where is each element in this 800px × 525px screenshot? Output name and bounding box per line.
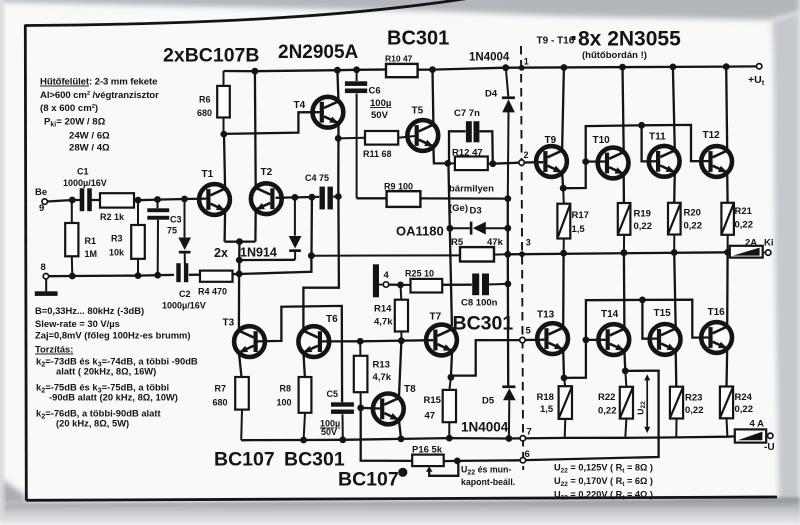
svg-text:C7 7n: C7 7n: [454, 108, 480, 119]
wire T11 base drop: [642, 125, 656, 161]
resistor R23: [670, 387, 704, 438]
resistor R2: [100, 193, 134, 222]
svg-text:R12 47: R12 47: [452, 148, 483, 159]
node input/R1/C1: [69, 197, 76, 204]
transistor T16: [701, 307, 732, 353]
terminal pin 4: [383, 270, 389, 287]
node T4 collector top: [334, 67, 341, 74]
svg-text:T16: T16: [708, 307, 726, 318]
svg-text:6: 6: [525, 449, 530, 460]
wire T11 emitter: [673, 172, 676, 203]
svg-text:28W / 4Ω: 28W / 4Ω: [69, 143, 110, 154]
transistor T11: [649, 132, 680, 177]
node T2 base/D2: [292, 194, 299, 201]
svg-text:R11 68: R11 68: [363, 149, 392, 159]
svg-text:R18: R18: [537, 392, 554, 403]
terminal Ki: [766, 250, 771, 255]
svg-text:D5: D5: [482, 396, 495, 407]
node T10 collector rail: [619, 64, 626, 71]
wire node2 link: [493, 163, 519, 164]
wire to C4: [295, 196, 319, 199]
svg-text:R8: R8: [280, 384, 292, 394]
svg-text:R3: R3: [111, 234, 123, 244]
svg-text:-U: -U: [764, 442, 775, 453]
svg-text:T7: T7: [430, 312, 442, 323]
wire R10-T5 collector: [418, 68, 433, 70]
svg-text:R6: R6: [199, 95, 211, 105]
node C5 bottom: [339, 436, 346, 443]
wire link to D2: [239, 259, 295, 262]
wire T7 emitter: [451, 351, 452, 377]
svg-text:T2: T2: [261, 167, 273, 178]
wire T4 emitter: [337, 123, 340, 196]
wire bias chain mid: [507, 199, 509, 255]
svg-text:1N4004: 1N4004: [461, 420, 509, 435]
transistor T10: [593, 135, 629, 178]
resistor R4: [198, 271, 233, 297]
wire base line to T7: [360, 340, 433, 341]
svg-text:R20: R20: [684, 208, 701, 219]
node R5 right / output rail: [504, 251, 511, 258]
wire T14 emitter: [623, 351, 626, 371]
node T11 collector rail: [670, 64, 677, 71]
resistor R21: [721, 203, 753, 253]
wire R9-D4 node: [420, 197, 507, 200]
transistor T7: [426, 312, 457, 356]
svg-text:2N2905A: 2N2905A: [278, 42, 359, 63]
wire pin5-T13 base: [525, 339, 544, 342]
svg-text:1N4004: 1N4004: [469, 52, 510, 64]
svg-text:T3: T3: [223, 318, 235, 329]
resistor R11: [338, 131, 414, 159]
node R2/R3: [135, 197, 142, 204]
resistor R24: [720, 387, 753, 437]
wire T9 collector: [562, 68, 564, 151]
node T13 emitter: [561, 375, 568, 382]
svg-text:3: 3: [526, 238, 531, 248]
transistor T9: [536, 135, 567, 177]
svg-text:B=0,33Hz... 80kHz (-3dB): B=0,33Hz... 80kHz (-3dB): [35, 305, 144, 316]
node T2 base/R5 branch: [309, 194, 316, 201]
svg-text:1,5: 1,5: [572, 224, 586, 235]
wire T3 emitter: [239, 352, 242, 377]
capacitor C1: [63, 167, 107, 212]
wire feedback up to T2 base node: [310, 197, 313, 256]
capacitor C7: [449, 108, 493, 164]
node C3 bottom: [154, 272, 161, 279]
node T5 collector top: [429, 66, 436, 73]
svg-text:BC301: BC301: [453, 313, 514, 335]
svg-text:Be: Be: [35, 187, 47, 198]
svg-text:100µ: 100µ: [370, 98, 391, 109]
label barmilyen (Ge): [449, 184, 494, 215]
node D1 top: [181, 196, 188, 203]
wire T1 emitter: [223, 210, 226, 241]
resistor R12: [448, 148, 493, 171]
wire T5 collector: [431, 70, 434, 125]
svg-text:680: 680: [197, 108, 212, 118]
svg-text:kapont-beáll.: kapont-beáll.: [461, 477, 515, 487]
node T8 emitter rail: [398, 436, 405, 443]
wire T2 collector: [254, 71, 257, 188]
wire T15 base drop: [642, 300, 657, 339]
resistor R13: [354, 341, 392, 408]
resistor R20: [668, 203, 702, 253]
svg-text:BC107: BC107: [338, 469, 399, 491]
svg-text:7: 7: [527, 427, 532, 438]
svg-text:C6: C6: [369, 86, 381, 97]
svg-text:1N914: 1N914: [240, 246, 277, 260]
svg-text:47k: 47k: [487, 237, 504, 248]
wire node5 jog: [452, 340, 520, 376]
diode D1 (1N914): [178, 199, 191, 265]
svg-text:Slew-rate = 30 V/µs: Slew-rate = 30 V/µs: [35, 318, 120, 329]
diode D5 (1N4004): [482, 385, 516, 438]
svg-text:Zaj=0,8mV (főleg 100Hz-es brum: Zaj=0,8mV (főleg 100Hz-es brumm): [35, 330, 191, 341]
svg-text:4: 4: [384, 270, 390, 281]
wire T2 emitter: [254, 210, 257, 242]
wire pin4-R25: [389, 283, 401, 286]
resistor R15: [424, 377, 457, 438]
node emitter/D2 link: [236, 257, 243, 264]
dashed separator line between boards: [521, 46, 523, 470]
svg-text:R4 470: R4 470: [198, 287, 227, 297]
svg-text:R10 47: R10 47: [385, 54, 413, 64]
svg-text:C2: C2: [179, 289, 191, 299]
diode D4 (1N4004): [485, 68, 515, 199]
svg-text:0,22: 0,22: [685, 405, 704, 416]
wire emitter junction down: [238, 242, 240, 274]
wire rail D4 to T12: [506, 67, 727, 68]
svg-text:T4: T4: [294, 100, 306, 111]
svg-text:T8: T8: [404, 384, 416, 395]
node R1 bottom: [69, 273, 76, 280]
capacitor C6: [345, 70, 391, 199]
svg-text:2x: 2x: [214, 246, 228, 260]
node R20 bottom rail: [671, 249, 678, 256]
node T8 base: [357, 405, 364, 412]
node R8 bottom: [300, 437, 307, 444]
schematic frame border bottom: [26, 497, 777, 500]
wire bottom rail: [241, 436, 735, 440]
node D3 right: [504, 225, 511, 232]
resistor R18: [537, 378, 573, 438]
resistor R10: [385, 54, 418, 78]
svg-text:R19: R19: [634, 209, 651, 220]
svg-text:8x 2N3055: 8x 2N3055: [578, 28, 681, 51]
svg-text:(Ge): (Ge): [449, 203, 468, 214]
wire T1 collector: [224, 134, 225, 189]
svg-text:C5: C5: [327, 389, 339, 399]
resistor R25: [401, 269, 443, 293]
transistor T5: [407, 106, 438, 151]
node T3 collector tap: [236, 271, 243, 278]
svg-text:24W / 6Ω: 24W / 6Ω: [69, 131, 110, 142]
wire T4 collector: [337, 70, 338, 101]
paper left margin shading: [0, 0, 4, 520]
node T11 base tap: [638, 122, 645, 129]
node T14 emitter: [622, 368, 629, 375]
node C3 top: [154, 196, 161, 203]
U22 measure arrow: [636, 374, 651, 433]
svg-text:R5: R5: [451, 237, 464, 248]
svg-text:(20 kHz, 8Ω, 5W): (20 kHz, 8Ω, 5W): [56, 418, 129, 429]
svg-text:R13: R13: [373, 360, 390, 371]
resistor R7: [213, 377, 249, 440]
wire output mid rail: [508, 252, 730, 254]
svg-text:T9 - T16: T9 - T16: [537, 36, 575, 47]
svg-text:Hűtőfelület: 2-3 mm fekete: Hűtőfelület: 2-3 mm fekete: [40, 77, 157, 88]
schematic frame border left: [25, 25, 26, 501]
svg-text:47: 47: [425, 411, 436, 422]
svg-text:T15: T15: [654, 308, 672, 319]
wire base bus lower: [586, 300, 643, 340]
wire node6 line: [444, 459, 520, 462]
svg-text:C4 75: C4 75: [305, 173, 329, 183]
node R12 right: [489, 160, 496, 167]
svg-text:Al>600 cm² /végtranzisztor: Al>600 cm² /végtranzisztor: [40, 90, 159, 101]
wire T15 emitter: [675, 350, 678, 386]
wire T6 base line: [322, 340, 360, 342]
node R14 bottom / T8 collector: [398, 337, 405, 344]
capacitor C3: [147, 200, 181, 276]
label U22 values: [554, 463, 653, 502]
transistor T4: [294, 97, 344, 128]
resistor R17: [557, 188, 589, 253]
svg-text:bármilyen: bármilyen: [449, 184, 494, 195]
svg-text:1000µ/16V: 1000µ/16V: [63, 178, 107, 188]
svg-text:2A: 2A: [745, 238, 757, 249]
wire T9 emitter: [562, 172, 563, 188]
svg-text:T5: T5: [412, 106, 424, 117]
svg-text:OA1180: OA1180: [396, 224, 444, 239]
svg-text:P16 5k: P16 5k: [412, 445, 443, 456]
wire R9 line: [357, 197, 387, 199]
wire R6-T4 base: [224, 112, 320, 134]
transistor T14: [598, 309, 629, 355]
node R3 bottom: [135, 272, 142, 279]
transistor T2: [251, 167, 282, 214]
terminal pin 2: [519, 150, 529, 165]
wire T6 emitter: [303, 352, 305, 377]
node pin 3: [519, 238, 531, 258]
wire T3 base jog to C5: [256, 306, 342, 402]
label 2x 1N914: [214, 246, 277, 261]
node R25 left / R14 top: [397, 282, 404, 289]
wire T12 collector: [726, 67, 727, 151]
wire T15 collector: [674, 253, 676, 329]
transistor T12: [701, 130, 732, 177]
svg-text:BC107: BC107: [214, 449, 275, 471]
transistor T8: [373, 384, 416, 424]
capacitor C8: [461, 274, 508, 309]
svg-text:Ki: Ki: [764, 238, 774, 249]
svg-text:T6: T6: [326, 314, 338, 325]
svg-text:BC301: BC301: [284, 449, 345, 471]
node R17 bottom rail: [560, 250, 567, 257]
svg-text:0,22: 0,22: [735, 404, 754, 415]
wire node6 to T14 emitter: [526, 371, 659, 461]
wire T11 collector: [673, 67, 675, 150]
svg-text:-90dB alatt (20 kHz, 8Ω, 10W): -90dB alatt (20 kHz, 8Ω, 10W): [49, 392, 178, 403]
scan shadow bottom-left corner: [0, 478, 27, 505]
svg-text:50V: 50V: [321, 427, 337, 437]
wire T13 collector: [562, 253, 565, 328]
ground symbol: [35, 279, 58, 296]
svg-text:10k: 10k: [109, 248, 125, 258]
node T9 emitter: [560, 185, 567, 192]
terminal -U: [764, 433, 775, 453]
wire T16 collector: [726, 252, 729, 326]
svg-text:680: 680: [213, 398, 228, 408]
node C6 top: [353, 66, 360, 73]
wire R25-C8: [442, 284, 472, 286]
resistor R14: [374, 285, 408, 341]
wire T5 emitter: [433, 146, 447, 163]
svg-text:5: 5: [526, 326, 532, 337]
node pin 1: [519, 65, 525, 71]
node C8 right: [505, 281, 512, 288]
scan shadow top-right corner and right edge: [772, 12, 800, 525]
wire R2-T1 base: [134, 199, 206, 201]
svg-text:T10: T10: [593, 135, 611, 146]
node R6 bottom / T1 collector: [220, 131, 227, 138]
node T7 emitter / R15: [448, 374, 455, 381]
node D4 top rail: [502, 64, 509, 71]
node P16 right: [454, 458, 461, 465]
wire bus to T16: [642, 300, 708, 338]
wire R4-feedback corner: [233, 256, 312, 275]
scan shadow bottom band: [0, 498, 800, 525]
node T15 base tap: [639, 297, 646, 304]
svg-text:(hűtőbordán !): (hűtőbordán !): [582, 50, 647, 61]
svg-text:C8 100n: C8 100n: [461, 298, 498, 309]
fuse 2A: [730, 238, 774, 258]
transistor T1: [199, 169, 230, 215]
wire C2-R4: [189, 274, 200, 276]
resistor R19: [618, 203, 652, 253]
wire T6 collector (from T4): [303, 197, 339, 331]
node R12 left: [444, 160, 451, 167]
spec text block: [35, 305, 198, 429]
svg-text:R17: R17: [572, 210, 589, 221]
resistor R1: [65, 200, 97, 276]
svg-text:R14: R14: [374, 304, 392, 315]
transistor T3: [223, 318, 265, 358]
transistor T13: [537, 310, 568, 355]
node R19 bottom rail: [621, 249, 628, 256]
wire T2 base: [276, 196, 295, 199]
node T4 emitter / R11: [335, 135, 342, 142]
svg-text:T1: T1: [202, 169, 214, 180]
wire T8 collector: [399, 341, 402, 399]
node feedback/R5: [308, 252, 315, 259]
svg-text:T9: T9: [545, 135, 557, 146]
svg-text:75: 75: [167, 226, 177, 236]
terminal pin 5: [520, 326, 532, 343]
svg-text:D4: D4: [485, 89, 498, 100]
annotation bullet: [398, 468, 407, 477]
svg-text:R24: R24: [735, 392, 753, 403]
wire T10 emitter: [623, 174, 626, 203]
svg-text:R22: R22: [598, 392, 615, 403]
svg-text:2xBC107B: 2xBC107B: [163, 45, 259, 67]
svg-text:alatt ( 20kHz, 8Ω, 16W): alatt ( 20kHz, 8Ω, 16W): [56, 366, 156, 377]
svg-text:4,7k: 4,7k: [373, 372, 392, 383]
svg-text:8: 8: [41, 262, 46, 273]
node T14 base riser: [583, 337, 590, 344]
svg-text:T14: T14: [601, 309, 619, 320]
svg-text:50V: 50V: [371, 110, 389, 121]
info text Hutofelulet: [40, 77, 159, 154]
svg-text:9: 9: [39, 203, 44, 214]
wire T9e-T10 base: [563, 162, 605, 189]
resistor R9: [384, 182, 420, 207]
node T10 base riser: [582, 158, 589, 165]
diode D2 (1N914): [289, 197, 302, 259]
svg-text:R23: R23: [685, 393, 702, 404]
svg-text:2: 2: [524, 150, 529, 160]
wire T3 collector: [238, 274, 241, 331]
node T12 collector rail: [723, 63, 730, 70]
wire input line: [47, 200, 80, 202]
label U22 es munkapont-beall.: [461, 465, 515, 488]
node T6 base / R13: [357, 338, 364, 345]
svg-text:0,22: 0,22: [598, 406, 617, 417]
heading T9-T16 = 8x 2N3055: [537, 28, 682, 51]
wire T16 emitter: [725, 348, 728, 386]
capacitor C2: [162, 263, 206, 310]
wire T14 collector: [623, 253, 626, 329]
node T2 collector top: [252, 68, 259, 75]
svg-text:R9 100: R9 100: [384, 182, 413, 192]
wire T8 base: [361, 407, 380, 410]
fuse 4A: [735, 419, 768, 443]
transistor T15: [650, 308, 681, 355]
node C4 right: [335, 193, 342, 200]
wire C1-R2: [91, 199, 100, 201]
svg-text:R2 1k: R2 1k: [100, 212, 125, 222]
svg-text:R21: R21: [735, 206, 753, 217]
svg-text:T13: T13: [537, 310, 555, 321]
terminal 8: [41, 262, 49, 279]
node D3 left junction: [447, 225, 454, 232]
svg-text:1,5: 1,5: [540, 404, 554, 415]
wire T10 collector: [623, 67, 624, 152]
svg-text:1M: 1M: [85, 249, 98, 259]
node emitter junction: [236, 238, 243, 245]
terminal pin 7: [520, 427, 532, 441]
wire base bus upper: [586, 125, 642, 161]
wire bus to T12: [642, 125, 709, 161]
capacitor C4: [305, 173, 333, 209]
svg-text:R15: R15: [424, 395, 442, 406]
svg-text:(8 x 600 cm²): (8 x 600 cm²): [40, 103, 98, 114]
wire T13 emitter: [562, 350, 565, 378]
node D5 bottom: [506, 435, 513, 442]
resistor R6: [197, 71, 230, 134]
svg-text:C1: C1: [77, 167, 89, 177]
svg-text:4 A: 4 A: [750, 419, 765, 430]
svg-text:R7: R7: [215, 384, 227, 394]
node R15 bottom: [446, 435, 453, 442]
wire T7 collector riser: [448, 163, 452, 326]
svg-text:Torzítás:: Torzítás:: [35, 344, 73, 355]
terminal pin 6: [520, 449, 530, 463]
wire pin2-T9 base: [524, 161, 543, 164]
svg-text:D3: D3: [470, 206, 482, 217]
wire T8 base to P16: [361, 408, 413, 461]
